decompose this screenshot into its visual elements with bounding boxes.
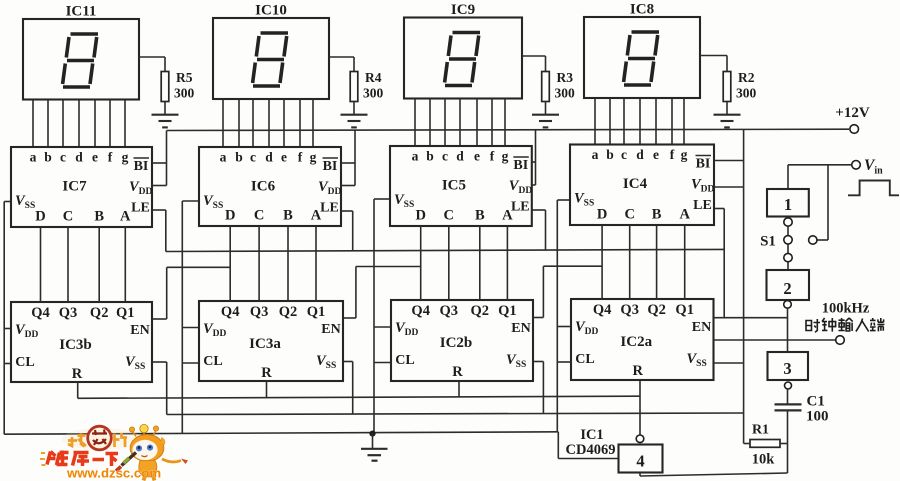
- svg-text:LE: LE: [320, 201, 339, 216]
- decade counter IC3a: [199, 301, 343, 381]
- digit 8 of IC10: [253, 33, 288, 86]
- svg-text:LE: LE: [693, 198, 712, 213]
- wire display IC10 pin g: [312, 99, 314, 147]
- wire ground bus: [4, 432, 558, 434]
- inverter block 2: [767, 270, 810, 300]
- svg-text:10k: 10k: [752, 452, 776, 468]
- svg-text:f: f: [298, 150, 303, 165]
- node S1 contact bottom: [784, 253, 792, 261]
- decade counter IC2b: [391, 300, 533, 381]
- svg-text:Q1: Q1: [307, 304, 326, 320]
- svg-text:Q1: Q1: [675, 302, 694, 318]
- wire R IC2b to reset bus: [458, 381, 460, 397]
- wire EN IC3a: [343, 317, 356, 319]
- wire BI-bar IC6 to +12V: [341, 162, 355, 164]
- wire R IC2a to inverter 4: [639, 380, 641, 435]
- wire carry Q4(IC2b) to EN(IC3a): [356, 266, 421, 268]
- svg-text:A: A: [120, 209, 131, 225]
- svg-text:C1: C1: [807, 394, 825, 410]
- svg-text:IC10: IC10: [255, 3, 287, 19]
- node ground junction: [369, 431, 375, 437]
- svg-text:Q4: Q4: [31, 305, 50, 321]
- wire VSS IC3a to bus: [343, 361, 353, 363]
- svg-text:Q1: Q1: [116, 305, 135, 321]
- wire VSS IC2a: [714, 362, 744, 364]
- node S1 side contact: [809, 236, 817, 244]
- wire inverter 3 to C1: [787, 389, 789, 404]
- svg-text:EN: EN: [511, 321, 530, 336]
- wire IC4 D to IC2a Q4: [601, 225, 603, 299]
- svg-text:2: 2: [783, 279, 791, 298]
- wire display IC9 pin d: [459, 99, 461, 147]
- waveform pulse symbol: [848, 181, 899, 196]
- wire LE IC4: [714, 208, 724, 210]
- svg-text:www.dzsc.com: www.dzsc.com: [66, 466, 161, 481]
- wire IC5 B to IC2b Q2: [479, 226, 481, 300]
- wire display IC10 pin b: [238, 99, 240, 147]
- wire VDD IC6 to +12V: [341, 185, 355, 187]
- wire display IC9 pin f: [491, 99, 493, 147]
- svg-text:A: A: [679, 207, 690, 223]
- wire IC6 A to IC3a Q1: [315, 226, 317, 301]
- wire display IC11 pin b: [47, 100, 49, 148]
- wire VDD IC7 to +12V: [152, 185, 167, 187]
- wire display IC9 pin c: [444, 99, 446, 147]
- resistor R1 10k: [750, 440, 780, 448]
- wire VSS IC5 to ground column: [374, 198, 390, 200]
- svg-text:a: a: [30, 150, 37, 165]
- wire carry Q4(IC3a) to EN(IC3b): [167, 266, 231, 268]
- wire display IC9 pin g: [504, 99, 506, 147]
- svg-text:R2: R2: [738, 70, 755, 85]
- svg-text:R4: R4: [365, 70, 382, 85]
- 7-segment display IC8: [584, 17, 700, 98]
- node inverter 3 output: [785, 382, 792, 389]
- svg-text:e: e: [281, 150, 287, 165]
- wire +12V drop at x=743.6: [743, 129, 745, 443]
- wire display IC8 pin a: [594, 98, 596, 145]
- wire IC5 A to IC2b Q1: [506, 226, 508, 300]
- wire counter VSS bus: [167, 413, 744, 415]
- svg-text:BI: BI: [696, 157, 711, 172]
- wire display IC11 pin c: [62, 100, 64, 148]
- svg-text:C: C: [63, 209, 73, 225]
- BCD decoder/latch IC6: [199, 147, 341, 226]
- svg-text:e: e: [653, 147, 659, 162]
- svg-text:D: D: [415, 208, 425, 224]
- svg-text:e: e: [474, 149, 480, 164]
- wire IC4 A to IC2a Q1: [684, 225, 686, 299]
- wire VDD IC2b: [374, 326, 391, 328]
- wire IC7 C to IC3b Q3: [67, 227, 69, 302]
- wire carry Q4(IC2a) to EN(IC2b): [543, 265, 602, 267]
- ground below R2: [714, 114, 741, 116]
- decade counter IC3b: [11, 302, 152, 382]
- svg-text:f: f: [670, 147, 675, 162]
- svg-text:b: b: [44, 150, 52, 165]
- svg-text:g: g: [122, 150, 129, 165]
- svg-text:C: C: [624, 207, 634, 223]
- svg-text:300: 300: [174, 86, 195, 101]
- svg-text:C: C: [254, 208, 264, 224]
- svg-text:4: 4: [636, 452, 644, 471]
- svg-text:BI: BI: [323, 159, 338, 174]
- svg-text:c: c: [60, 150, 66, 165]
- svg-text:BI: BI: [513, 158, 528, 173]
- wire IC6 D to IC3a Q4: [229, 226, 231, 301]
- wire VSS IC6 to ground column: [182, 200, 199, 202]
- svg-text:Q4: Q4: [221, 304, 240, 320]
- svg-text:c: c: [621, 147, 627, 162]
- svg-text:1: 1: [784, 195, 792, 214]
- svg-text:CL: CL: [203, 354, 222, 369]
- svg-text:IC9: IC9: [451, 2, 475, 18]
- svg-text:e: e: [92, 150, 98, 165]
- svg-text:c: c: [250, 150, 256, 165]
- resistor R3 300: [542, 72, 550, 102]
- wire display IC10 pin c: [252, 99, 254, 147]
- wire VDD IC4 to +12V: [714, 186, 744, 188]
- svg-text:D: D: [35, 209, 45, 225]
- svg-text:B: B: [652, 207, 662, 223]
- wire display IC11 pin g: [124, 100, 126, 148]
- svg-text:BI: BI: [134, 159, 149, 174]
- svg-text:B: B: [94, 209, 104, 225]
- svg-text:EN: EN: [130, 323, 149, 338]
- wire CL IC3a: [182, 362, 199, 364]
- node S1 contact top: [784, 218, 792, 226]
- 7-segment display IC9: [404, 18, 522, 99]
- svg-text:a: a: [592, 147, 599, 162]
- wire display IC11 pin f: [109, 100, 111, 148]
- ground below R3: [532, 114, 559, 116]
- svg-text:D: D: [225, 208, 235, 224]
- wire EN IC3b: [152, 318, 167, 320]
- wire VSS IC7 to ground column: [4, 201, 11, 203]
- svg-text:g: g: [681, 147, 688, 162]
- svg-text:Q2: Q2: [279, 304, 298, 320]
- svg-text:b: b: [235, 150, 243, 165]
- wire IC11 anode to resistor R5: [139, 56, 165, 58]
- svg-text:IC5: IC5: [442, 178, 466, 194]
- ground below R5: [152, 114, 179, 116]
- wire resistor R3 to ground: [545, 102, 547, 115]
- wire Vin to switch: [788, 164, 852, 166]
- svg-text:R: R: [633, 363, 644, 379]
- svg-text:CL: CL: [395, 353, 414, 368]
- svg-text:100: 100: [806, 409, 829, 425]
- wire VSS IC3b to bus: [152, 361, 167, 363]
- svg-text:IC11: IC11: [66, 4, 97, 20]
- BCD decoder/latch IC7: [11, 147, 152, 227]
- wire display IC10 pin d: [268, 99, 270, 147]
- svg-text:d: d: [456, 149, 464, 164]
- svg-text:EN: EN: [321, 322, 340, 337]
- svg-text:IC1: IC1: [580, 427, 603, 443]
- wire LE IC6: [341, 210, 353, 212]
- resistor R5 300: [161, 72, 169, 102]
- wire VSS IC2b to bus: [533, 361, 543, 363]
- wire IC5 C to IC2b Q3: [448, 226, 450, 300]
- wire BI-bar IC5 to +12V: [532, 161, 536, 163]
- 7-segment display IC11: [23, 19, 139, 100]
- wire display IC8 pin d: [639, 98, 641, 145]
- svg-text:CL: CL: [575, 352, 594, 367]
- wire LE IC5: [532, 209, 546, 211]
- svg-text:IC8: IC8: [630, 2, 654, 18]
- wire VDD IC5 to +12V: [532, 184, 536, 186]
- wire display IC9 pin a: [414, 99, 416, 147]
- svg-text:b: b: [426, 149, 434, 164]
- wire display IC8 pin c: [623, 98, 625, 145]
- svg-text:R: R: [261, 365, 272, 381]
- svg-text:B: B: [283, 208, 293, 224]
- wire VDD IC3b: [4, 328, 11, 330]
- wire display IC9 pin e: [476, 99, 478, 147]
- label clock input (Chinese): [806, 318, 884, 332]
- svg-text:R: R: [72, 366, 83, 382]
- wire IC5 D to IC2b Q4: [420, 226, 422, 300]
- svg-text:d: d: [636, 147, 644, 162]
- wire IC4 B to IC2a Q2: [656, 225, 658, 299]
- wire R IC3b to reset bus: [77, 382, 79, 398]
- watermark logo dzsc: [40, 424, 188, 480]
- wire resistor R5 to ground: [164, 102, 166, 115]
- wire S1 chain: [787, 217, 789, 271]
- svg-text:Q2: Q2: [471, 303, 490, 319]
- wire IC9 anode to resistor R3: [522, 55, 546, 57]
- wire VSS IC4 to ground column: [557, 199, 570, 201]
- wire display IC10 pin f: [299, 99, 301, 147]
- svg-text:IC3a: IC3a: [249, 336, 281, 352]
- svg-text:LE: LE: [131, 201, 150, 216]
- svg-text:IC2a: IC2a: [620, 334, 652, 350]
- svg-text:IC4: IC4: [623, 176, 648, 192]
- wire LE IC7: [152, 209, 166, 211]
- wire IC8 anode to resistor R2: [700, 55, 727, 57]
- svg-text:Q2: Q2: [90, 305, 109, 321]
- decade counter IC2a: [571, 299, 714, 380]
- wire IC7 B to IC3b Q2: [98, 227, 100, 302]
- resistor R2 300: [723, 72, 731, 102]
- wire EN IC2b: [533, 317, 543, 319]
- terminal Vin: [852, 161, 861, 170]
- svg-text:B: B: [475, 208, 485, 224]
- svg-text:R1: R1: [752, 423, 769, 438]
- node +12V terminal: [850, 125, 859, 134]
- wire display IC11 pin e: [94, 100, 96, 148]
- terminal clock output: [836, 336, 845, 345]
- wire IC10 anode to resistor R4: [329, 56, 354, 58]
- svg-text:300: 300: [736, 86, 757, 101]
- wire resistor R2 to ground: [726, 102, 728, 115]
- svg-text:R5: R5: [176, 70, 193, 85]
- svg-text:d: d: [75, 150, 83, 165]
- svg-text:f: f: [490, 149, 495, 164]
- svg-text:R: R: [452, 364, 463, 380]
- wire CL IC2b: [374, 362, 391, 364]
- wire display IC8 pin e: [655, 98, 657, 145]
- capacitor C1 100: [775, 403, 802, 405]
- wire VDD IC3a: [182, 327, 199, 329]
- svg-text:300: 300: [363, 86, 384, 101]
- svg-text:A: A: [502, 208, 513, 224]
- wire Vin branch to S1 contact: [827, 165, 829, 240]
- wire IC7 D to IC3b Q4: [40, 227, 42, 302]
- wire LE bus: [166, 249, 724, 251]
- svg-text:+12V: +12V: [835, 105, 870, 121]
- wire VDD IC2a: [557, 326, 571, 328]
- wire CL IC2a: [557, 361, 571, 363]
- svg-text:Q3: Q3: [250, 304, 269, 320]
- svg-text:a: a: [220, 150, 227, 165]
- svg-text:A: A: [311, 208, 322, 224]
- resistor R4 300: [350, 72, 358, 102]
- inverter U1-4: [619, 445, 663, 473]
- svg-text:Q4: Q4: [411, 303, 430, 319]
- svg-text:a: a: [412, 149, 419, 164]
- wire +12V drop at x=166.5: [166, 131, 168, 186]
- inverter block 3: [768, 352, 809, 380]
- wire EN IC2a to oscillator: [714, 317, 788, 319]
- wire CL IC3b: [4, 363, 11, 365]
- svg-text:Q3: Q3: [59, 305, 78, 321]
- wire IC6 B to IC3a Q2: [287, 226, 289, 301]
- node S1 contact middle: [784, 236, 792, 244]
- svg-text:IC6: IC6: [251, 179, 276, 195]
- svg-text:100kHz: 100kHz: [822, 301, 870, 317]
- svg-text:C: C: [444, 208, 454, 224]
- node inverter 2 output: [784, 301, 792, 309]
- svg-text:d: d: [265, 150, 273, 165]
- digit 8 of IC11: [63, 34, 98, 87]
- ground main: [372, 434, 374, 449]
- svg-text:EN: EN: [692, 320, 711, 335]
- wire R1 right: [780, 443, 788, 445]
- 7-segment display IC10: [213, 18, 329, 99]
- digit 8 of IC9: [445, 33, 480, 86]
- BCD decoder/latch IC5: [390, 146, 532, 226]
- wire clock line: [714, 339, 836, 341]
- wire display IC11 pin a: [32, 100, 34, 148]
- wire reset bus: [78, 396, 640, 398]
- svg-text:Q2: Q2: [647, 302, 666, 318]
- svg-text:300: 300: [555, 86, 576, 101]
- wire IC4 C to IC2a Q3: [629, 225, 631, 299]
- svg-text:g: g: [310, 150, 317, 165]
- wire IC6 C to IC3a Q3: [258, 226, 260, 301]
- wire display IC8 pin g: [683, 98, 685, 145]
- wire display IC10 pin a: [222, 99, 224, 147]
- wire BI-bar IC4 to +12V: [714, 160, 744, 162]
- wire inverter 4 output: [639, 473, 641, 477]
- node inverter 4 input bubble: [636, 435, 644, 443]
- svg-text:CL: CL: [15, 355, 34, 370]
- wire R IC3a to reset bus: [266, 381, 268, 398]
- wire display IC8 pin f: [671, 98, 673, 145]
- svg-text:3: 3: [783, 359, 791, 378]
- wire inverter 2 to inverter 3: [787, 308, 789, 352]
- svg-text:Q3: Q3: [440, 303, 459, 319]
- wire R1 left: [744, 443, 750, 445]
- wire display IC10 pin e: [283, 99, 285, 147]
- wire display IC8 pin b: [609, 98, 611, 145]
- wire resistor R4 to ground: [353, 102, 355, 115]
- svg-text:g: g: [502, 149, 509, 164]
- svg-text:LE: LE: [511, 200, 530, 215]
- wire +12V rail: [167, 129, 850, 130]
- wire display IC11 pin d: [78, 100, 80, 148]
- wire ground bus to inverter 4: [557, 432, 559, 459]
- svg-text:f: f: [108, 150, 113, 165]
- wire BI-bar IC7 to +12V: [152, 162, 167, 164]
- svg-text:S1: S1: [760, 234, 776, 250]
- svg-text:Q3: Q3: [620, 302, 639, 318]
- svg-text:b: b: [606, 147, 614, 162]
- wire C1 to feedback: [787, 412, 789, 474]
- svg-text:IC3b: IC3b: [59, 337, 92, 353]
- ground below R4: [341, 114, 368, 116]
- wire +12V drop at x=355: [354, 130, 356, 185]
- svg-text:Q1: Q1: [498, 303, 517, 319]
- svg-text:D: D: [597, 207, 607, 223]
- wire display IC9 pin b: [429, 99, 431, 147]
- wire +12V drop at x=535.5: [535, 130, 537, 185]
- svg-text:c: c: [442, 149, 448, 164]
- svg-text:IC7: IC7: [62, 179, 87, 195]
- svg-text:Q4: Q4: [593, 302, 612, 318]
- inverter block 1: [767, 189, 809, 217]
- svg-text:CD4069: CD4069: [566, 442, 616, 458]
- svg-text:R3: R3: [557, 70, 574, 85]
- wire IC7 A to IC3b Q1: [124, 227, 126, 302]
- digit 8 of IC8: [624, 32, 659, 85]
- svg-text:IC2b: IC2b: [440, 335, 473, 351]
- BCD decoder/latch IC4: [570, 145, 714, 226]
